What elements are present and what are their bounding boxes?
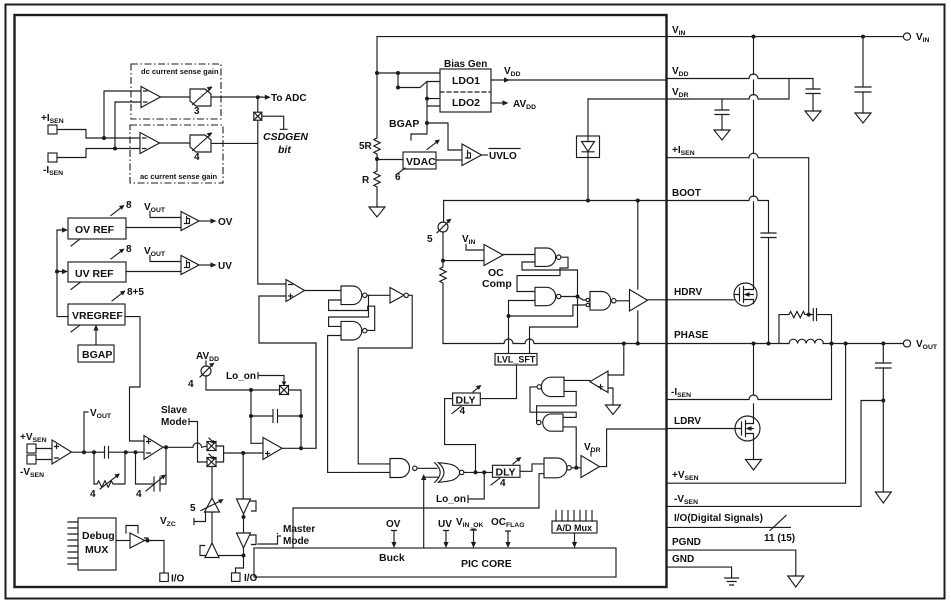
box PIC CORE [254, 548, 616, 577]
svg-text:To ADC: To ADC [271, 93, 307, 104]
svg-text:bit: bit [278, 144, 291, 156]
node boot-cap-768 [767, 342, 771, 346]
svg-text:3: 3 [194, 106, 200, 117]
wire NAND-B out branch to NAND-A in2 [522, 262, 578, 297]
wire to buffer down 2 [243, 514, 245, 533]
arrow A/D mux to pic [574, 533, 576, 544]
wire CSDGEN stub [262, 116, 287, 129]
node int cap left [249, 414, 253, 418]
arrow UV out [199, 264, 213, 266]
wire DLY-A input from xnor node [445, 399, 476, 470]
wire amp1 out [72, 451, 105, 453]
node uvref tap [55, 270, 59, 274]
svg-text:4: 4 [90, 489, 96, 500]
wire var amp to slave switch2 [211, 467, 213, 499]
svg-text:4: 4 [136, 489, 142, 500]
wire LDRV external [667, 428, 736, 430]
comparator UV [181, 256, 199, 275]
svg-text:LDO2: LDO2 [452, 97, 480, 109]
wire comp - input to phase [608, 346, 624, 376]
node outcap bottom [881, 399, 885, 403]
svg-text:dc current sense gain: dc current sense gain [141, 67, 219, 76]
svg-text:Debug: Debug [82, 530, 115, 542]
resistor 5R [374, 73, 380, 159]
wire buf2 out to IO pad [236, 548, 244, 573]
wire HDRV internal [648, 299, 668, 301]
gate NAND1 [341, 286, 362, 305]
adjust arrow UV REF [111, 250, 123, 259]
dc current sense gain dash-dot box [131, 64, 221, 119]
node bgap [425, 121, 429, 125]
driver HDRV [630, 290, 648, 312]
wire VDD internal [491, 79, 667, 81]
svg-text:UVLO: UVLO [489, 151, 517, 162]
svg-text:Slave: Slave [161, 405, 188, 416]
variable amp Vzc [205, 498, 220, 512]
wire loon switch out [289, 390, 302, 448]
svg-text:DLY: DLY [496, 467, 516, 479]
wire +ISEN to amps [57, 130, 140, 139]
capacitor series input [105, 447, 126, 459]
wire integrator left leg [251, 390, 263, 443]
wire I/O bus [667, 526, 790, 528]
node vout-883 [881, 342, 885, 346]
wire lvl tap to NAND3 in2 [509, 305, 587, 316]
svg-text:LDO1: LDO1 [452, 75, 480, 87]
wire vzc buffer to var amp [211, 512, 213, 543]
wire INV out route down to or-gate [358, 295, 412, 464]
node outcap-845 [844, 342, 848, 346]
svg-text:BGAP: BGAP [389, 118, 419, 130]
adjust arrow OV REF [111, 207, 123, 216]
buffer debug [130, 533, 145, 548]
svg-text:OV: OV [386, 519, 401, 530]
op-amp dc sense [141, 87, 161, 108]
node buf1 out [242, 515, 246, 519]
wire vin to LDO1 [377, 72, 440, 74]
wire LVLSFT bottom to DLY-A [480, 365, 516, 399]
ground GND earth [725, 578, 739, 585]
wire NAND-A out cross to NAND-B in1 [517, 257, 568, 291]
node vin-bias [375, 71, 379, 75]
arrow To ADC [262, 96, 268, 98]
svg-text:GND: GND [672, 554, 694, 565]
wire VIN top feed [377, 37, 667, 73]
node xnor out b [482, 470, 486, 474]
op-amp integrator [263, 438, 282, 460]
wire G5 in2 tie to ldrv node [563, 427, 576, 468]
svg-text:Lo_on: Lo_on [436, 494, 466, 505]
box VREGREF [68, 304, 125, 325]
wire VDR external with hop [667, 79, 789, 100]
svg-text:4: 4 [194, 152, 200, 163]
switch CSDGEN X-box [254, 112, 262, 120]
terminal VIN [903, 33, 910, 40]
node diode-boot [586, 199, 590, 203]
wire NAND-B out to NAND3 [561, 297, 586, 301]
resistor OC [440, 261, 446, 344]
ground Q2 source [746, 460, 762, 471]
IC boundary box [15, 15, 667, 587]
box UV REF [68, 262, 126, 282]
svg-text:Mode: Mode [283, 536, 310, 547]
resistor R [374, 159, 380, 207]
adjust arrow DLY-1 [513, 459, 520, 465]
variable cap branch [136, 447, 167, 484]
capacitor VDD-gnd [806, 79, 820, 112]
svg-text:A/D Mux: A/D Mux [556, 523, 592, 533]
svg-text:5: 5 [190, 503, 196, 514]
wire GND external [667, 567, 732, 578]
wire ldo1 second input [397, 73, 399, 88]
wire NAND2 in2 hook down [328, 336, 390, 473]
wire +VSEN external [667, 346, 846, 484]
svg-text:I/O(Digital Signals): I/O(Digital Signals) [674, 513, 763, 524]
svg-text:OV: OV [218, 217, 233, 228]
snubber resistor [779, 311, 809, 343]
node isen2 [113, 147, 117, 151]
wire vertical csdgen bus [258, 97, 286, 284]
svg-text:UV REF: UV REF [75, 268, 114, 280]
svg-text:Bias Gen: Bias Gen [444, 59, 487, 70]
svg-text:Mode: Mode [161, 417, 188, 428]
pad +ISEN input [48, 125, 57, 134]
node OC sense [441, 259, 445, 263]
box OV REF [68, 218, 126, 239]
wire UVREF out to comp [126, 271, 181, 273]
node varC branch [134, 450, 138, 454]
inductor L1 [789, 339, 823, 343]
node slave bus [241, 451, 245, 455]
capacitor bootstrap [761, 233, 776, 344]
node VIN-753 [752, 35, 756, 39]
wire PGND external [667, 550, 796, 576]
ground VDR cap [714, 130, 730, 140]
wire NAND1 out to INV [367, 294, 390, 296]
svg-text:PIC CORE: PIC CORE [461, 558, 512, 570]
diode VDR-BOOT [587, 99, 589, 136]
buffer down 1 [237, 499, 251, 514]
pad +VSEN [27, 444, 36, 453]
node snubber mid [807, 313, 811, 317]
node xnor out a [474, 470, 478, 474]
wire G5 out weave to G4 in2 [537, 391, 577, 422]
switch X slave2 [207, 458, 216, 467]
node vout tap [82, 450, 86, 454]
op-amp compensator [144, 436, 163, 460]
pad -VSEN [27, 455, 36, 464]
node lvl tap [507, 314, 511, 318]
wire comp out to slave switch with hop [163, 443, 207, 447]
wire risers to dc amp [104, 91, 141, 149]
gate NAND6 ldrv [544, 458, 567, 478]
arrow BGAP to VREGREF [95, 328, 97, 345]
current source AVDD [205, 361, 207, 366]
wire NAND6 in2 from PIC [293, 474, 544, 548]
wire cross link to vzc chain [212, 556, 244, 558]
gate NAND2 [341, 321, 362, 340]
pad I/O debug [160, 573, 169, 582]
svg-text:ac current sense gain: ac current sense gain [140, 172, 218, 181]
wire comparator out to G4 in1 [564, 379, 590, 381]
gain box ac (4) [190, 135, 211, 152]
capacitor integrator [251, 410, 301, 423]
wire G4 out weave to G5 in1 [530, 387, 576, 418]
wire source to OC node [442, 232, 444, 261]
comparator OC [484, 245, 503, 266]
svg-text:8: 8 [126, 244, 132, 255]
wire VDAC to comp [436, 159, 462, 161]
capacitor VIN-gnd [855, 37, 871, 113]
wire -ISEN to amps [57, 149, 140, 158]
adjust arrow DLY-A [473, 387, 480, 393]
wire LDRV out [600, 429, 668, 467]
wire UVLO out [482, 154, 488, 156]
svg-text:I/O: I/O [244, 573, 258, 584]
svg-text:BGAP: BGAP [82, 349, 112, 361]
buffer down 2 [237, 533, 251, 548]
arrow OV out [199, 220, 213, 222]
svg-text:Buck: Buck [379, 552, 405, 564]
wire NAND3 out to driver [616, 300, 630, 302]
wire LVLSFT up1 to NAND-B in2 [509, 301, 536, 354]
wire buck into xnor [424, 477, 438, 548]
ground PGND [788, 576, 804, 587]
adjust arrow VREGREF [112, 292, 124, 301]
svg-text:VREGREF: VREGREF [72, 310, 123, 322]
wire master mode control [258, 534, 281, 545]
gate NAND-OR before xnor [390, 459, 410, 478]
svg-text:5: 5 [427, 234, 433, 245]
wires pads to amp1 [36, 449, 52, 460]
buffer up vzc [205, 543, 219, 558]
wire error amp out to latch1 [305, 290, 342, 292]
wire bgap to uvlo comp [427, 123, 462, 150]
wire divider to VDAC [377, 159, 403, 161]
svg-text:4: 4 [460, 406, 466, 417]
svg-text:HDRV: HDRV [674, 287, 702, 298]
svg-text:VDAC: VDAC [406, 156, 436, 168]
wire error amp + from slave bus [259, 296, 316, 448]
node comp out [164, 445, 168, 449]
ground VIN cap [855, 113, 871, 123]
capacitor VDR-gnd [715, 99, 729, 130]
svg-text:UV: UV [218, 261, 232, 272]
wire OVREF out to comp [126, 227, 181, 229]
pad -ISEN input [48, 153, 57, 162]
wire slave bus down [242, 453, 244, 499]
svg-text:BOOT: BOOT [672, 188, 701, 199]
wire ac amp to gain4 [160, 142, 191, 144]
bus comb A/D mux [556, 511, 592, 522]
node varR branch [92, 450, 96, 454]
capacitor output [876, 344, 892, 401]
svg-text:UV: UV [438, 519, 452, 530]
svg-text:CSDGEN: CSDGEN [263, 131, 308, 143]
wire -VSEN external [667, 401, 881, 507]
wire Lo_on tie [468, 472, 484, 502]
ground divider [369, 207, 385, 217]
wire outcap bottom to ground [882, 401, 884, 493]
wire slave mode control [189, 419, 207, 463]
driver LDRV [581, 456, 600, 478]
wire VDD external with hop [667, 74, 813, 79]
ground zc comp [606, 405, 621, 415]
node boot-driver [636, 199, 640, 203]
wire ref left rail [57, 230, 68, 317]
svg-text:MUX: MUX [85, 544, 108, 556]
svg-text:5R: 5R [359, 141, 373, 152]
svg-text:PGND: PGND [672, 537, 701, 548]
node after cap [124, 450, 128, 454]
wire PHASE / VOUT rail [667, 343, 789, 345]
wire ac gain output to bus [211, 142, 258, 144]
node VIN-863 [861, 35, 865, 39]
svg-text:6: 6 [395, 172, 401, 183]
node PHASE-753 [752, 342, 756, 346]
svg-text:Comp: Comp [482, 278, 512, 290]
node integ out [299, 446, 303, 450]
wire dc amp to gain3 [161, 96, 191, 98]
wire BOOT external with hop to boot cap [667, 196, 769, 233]
svg-text:LDRV: LDRV [674, 416, 701, 427]
transistor Q2 [735, 346, 760, 460]
box LVL_SFT [495, 354, 537, 366]
debug mux input comb [68, 522, 78, 564]
wire -ISEN external with hop [667, 346, 832, 400]
gate G4 zero-cross latch upper (faces left) [541, 377, 564, 396]
pad I/O master [232, 573, 241, 582]
svg-text:DLY: DLY [456, 395, 476, 407]
wire AVDD out [491, 102, 505, 104]
box A/D Mux [552, 521, 597, 533]
gate NAND3 pwm [590, 292, 611, 311]
svg-text:OV REF: OV REF [75, 224, 115, 236]
ground output cap [875, 492, 891, 503]
svg-text:4: 4 [188, 379, 194, 390]
box DLY-1 [493, 465, 521, 477]
wire bgap vertical rail [411, 82, 440, 141]
node int cap right [299, 414, 303, 418]
wire mux to buffer [116, 540, 130, 542]
wire avdd source to loon switch [206, 376, 280, 390]
adjust arrow VDAC [427, 141, 438, 150]
node debug out [146, 539, 150, 543]
op-amp error amp [286, 280, 305, 302]
node vdac tap [375, 157, 379, 161]
current source 5 (oc threshold) [443, 201, 445, 223]
svg-text:11 (15): 11 (15) [764, 533, 795, 544]
wire NAND1 cross down to NAND2 in1 [329, 295, 369, 326]
node phase-comparator tap [622, 342, 626, 346]
bus slash [770, 516, 786, 531]
wire OC comp out [503, 254, 535, 256]
snubber capacitor [809, 309, 832, 344]
node ldo2 tap [425, 97, 429, 101]
wire oc node to comp [443, 260, 484, 262]
switch X slave1 [207, 442, 216, 451]
gate NAND-A oc latch [535, 248, 556, 266]
wire DLY-1 out to NAND6 [520, 464, 544, 471]
op-amp ac sense [140, 133, 160, 154]
comparator zero cross (points left) [590, 371, 608, 393]
ac current sense gain dash-dot box [130, 125, 223, 183]
svg-text:PHASE: PHASE [674, 330, 709, 341]
node snubber-831 [830, 342, 834, 346]
node ldrv gate out [574, 466, 578, 470]
wire switch bracket [216, 446, 263, 462]
wire VIN vertical to Q1 drain [753, 37, 755, 286]
svg-text:LVL_SFT: LVL_SFT [497, 355, 536, 365]
switch X lo_on [280, 386, 289, 395]
box BGAP [78, 345, 114, 362]
wire into amp2 minus [126, 451, 144, 453]
box Bias Gen LDO1/LDO2 [440, 69, 491, 112]
wire PHASE internal rail [443, 339, 667, 344]
ground VDD cap [805, 111, 821, 121]
svg-text:Lo_on: Lo_on [226, 371, 256, 382]
svg-text:Master: Master [283, 524, 315, 535]
wire integ out feedback to error amp [282, 343, 316, 448]
wire BOOT internal [444, 200, 667, 202]
wire nand out to xnor [417, 467, 437, 469]
box VDAC [403, 152, 436, 169]
box DLY-A [453, 393, 481, 405]
gate G5 zero-cross latch lower (faces left) [543, 414, 563, 431]
gain box dc (3) [190, 89, 211, 106]
svg-text:R: R [362, 175, 370, 186]
wire comp + input to gnd [608, 388, 613, 405]
node to-ADC [256, 95, 260, 99]
wire gain3 to ADC node [211, 96, 262, 98]
svg-text:I/O: I/O [171, 574, 185, 585]
wire NAND2 out cross to NAND1 in2 [329, 300, 375, 330]
wire LVLSFT up2 to nandb out node [530, 299, 578, 354]
wire NAND6 out to driver [571, 467, 581, 469]
op-amp vsen diff [52, 440, 72, 464]
terminal VOUT [903, 340, 910, 347]
wire VIN rail [667, 36, 903, 38]
node driver-phase [636, 342, 640, 346]
wire debug out to IO pad [145, 541, 165, 574]
node buf2 out [242, 554, 246, 558]
node nandb out [576, 295, 580, 299]
wire xnor out to DLY-1 [464, 471, 493, 473]
wire VREGREF out long route [125, 317, 144, 441]
gate XNOR pwm [439, 463, 461, 483]
wire BOOT to driver and PHASE [637, 201, 639, 344]
svg-text:8: 8 [126, 200, 132, 211]
wire HDRV external [667, 299, 734, 301]
variable resistor branch [94, 452, 125, 487]
gate NAND-B oc latch [535, 287, 556, 305]
transistor Q1 [734, 283, 757, 306]
inverter after latch1 [390, 288, 404, 304]
wire +ISEN external with hop [667, 153, 809, 314]
comparator UVLO [462, 144, 482, 166]
node ldo feed [396, 71, 400, 75]
svg-text:8+5: 8+5 [127, 287, 144, 298]
node integrator top [249, 388, 253, 392]
comparator OV [181, 212, 199, 231]
node isen1 [102, 136, 106, 140]
svg-text:4: 4 [500, 478, 506, 489]
box Debug MUX [78, 518, 116, 570]
